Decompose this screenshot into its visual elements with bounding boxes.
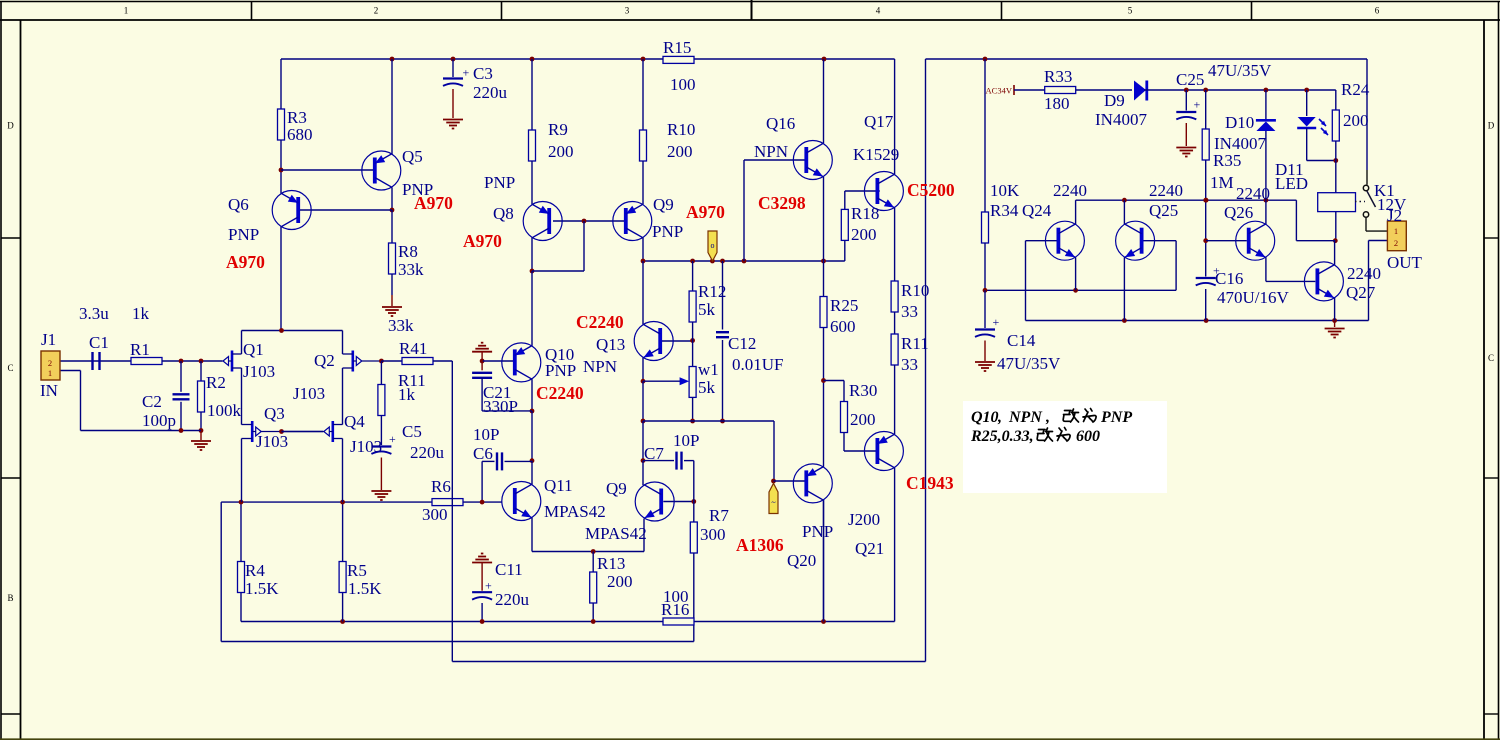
svg-text:J103: J103 [243, 362, 275, 381]
svg-text:J200: J200 [848, 510, 880, 529]
svg-text:+: + [1194, 98, 1201, 112]
svg-text:A1306: A1306 [736, 535, 784, 555]
svg-text:47U/35V: 47U/35V [1208, 61, 1272, 80]
svg-text:Q1: Q1 [243, 340, 264, 359]
svg-text:C7: C7 [644, 444, 664, 463]
svg-text:1k: 1k [398, 385, 416, 404]
svg-text:D: D [1488, 121, 1495, 131]
svg-text:R10: R10 [667, 120, 695, 139]
svg-text:Q5: Q5 [402, 147, 423, 166]
svg-text:LED: LED [1275, 174, 1308, 193]
svg-text:R4: R4 [245, 561, 265, 580]
svg-text:C3298: C3298 [758, 193, 806, 213]
svg-text:10P: 10P [673, 431, 699, 450]
svg-text:200: 200 [607, 572, 633, 591]
svg-text:220u: 220u [410, 443, 445, 462]
svg-text:NPN: NPN [754, 142, 788, 161]
svg-text:5k: 5k [698, 378, 716, 397]
svg-text:33: 33 [901, 302, 918, 321]
svg-text:Q9: Q9 [653, 195, 674, 214]
svg-text:C: C [7, 363, 13, 373]
svg-text:C6: C6 [473, 444, 493, 463]
svg-text:100: 100 [670, 75, 696, 94]
svg-text:+: + [993, 315, 1000, 329]
svg-text:+: + [463, 66, 470, 80]
svg-text:Q17: Q17 [864, 112, 894, 131]
svg-text:200: 200 [1343, 111, 1369, 130]
svg-text:,: , [997, 409, 1002, 426]
svg-text:600: 600 [1076, 428, 1100, 445]
svg-text:PNP: PNP [802, 522, 833, 541]
svg-text:Q10: Q10 [971, 409, 999, 426]
svg-text:R11: R11 [901, 334, 929, 353]
svg-text:+: + [485, 579, 492, 593]
svg-text:R15: R15 [663, 38, 691, 57]
svg-text:A970: A970 [226, 252, 265, 272]
svg-text:NPN: NPN [583, 357, 617, 376]
svg-text:R12: R12 [698, 282, 726, 301]
svg-text:R33: R33 [1044, 67, 1072, 86]
svg-text:R25: R25 [830, 296, 858, 315]
svg-text:A970: A970 [463, 231, 502, 251]
svg-text:0.01UF: 0.01UF [732, 355, 783, 374]
svg-text:C2240: C2240 [576, 312, 624, 332]
svg-text:R41: R41 [399, 339, 427, 358]
svg-text:600: 600 [830, 317, 856, 336]
svg-text:1M: 1M [1210, 173, 1234, 192]
svg-text:C3: C3 [473, 64, 493, 83]
svg-text:1k: 1k [132, 304, 150, 323]
svg-text:IN4007: IN4007 [1095, 110, 1147, 129]
svg-text:3.3u: 3.3u [79, 304, 109, 323]
svg-text:6: 6 [1375, 6, 1380, 16]
svg-text:2: 2 [48, 358, 52, 368]
svg-text:R9: R9 [548, 120, 568, 139]
svg-text:2: 2 [1394, 238, 1398, 248]
svg-text:R10: R10 [901, 281, 929, 300]
svg-text:AC34V: AC34V [986, 86, 1013, 96]
svg-text:~: ~ [771, 498, 776, 507]
svg-text:B: B [7, 593, 13, 603]
svg-text:470U/16V: 470U/16V [1217, 288, 1290, 307]
svg-text:PNP: PNP [652, 222, 683, 241]
svg-text:200: 200 [851, 225, 877, 244]
svg-text:1.5K: 1.5K [245, 579, 279, 598]
svg-text:C1: C1 [89, 333, 109, 352]
svg-text:NPN: NPN [1008, 409, 1043, 426]
svg-text:Q16: Q16 [766, 114, 795, 133]
svg-text:680: 680 [287, 125, 313, 144]
svg-text:300: 300 [700, 525, 726, 544]
svg-text:,: , [1045, 409, 1050, 426]
svg-text:1: 1 [1394, 226, 1398, 236]
svg-text:C1943: C1943 [906, 473, 954, 493]
svg-text:PNP: PNP [1100, 409, 1132, 426]
svg-text:220u: 220u [473, 83, 508, 102]
svg-text:4: 4 [876, 6, 881, 16]
svg-text:2240: 2240 [1053, 181, 1087, 200]
svg-text:PNP: PNP [228, 225, 259, 244]
svg-text:C14: C14 [1007, 331, 1036, 350]
svg-text:J1: J1 [41, 330, 56, 349]
svg-text:OUT: OUT [1387, 253, 1423, 272]
svg-text:33k: 33k [388, 316, 414, 335]
svg-text:C16: C16 [1215, 269, 1243, 288]
svg-text:PNP: PNP [484, 173, 515, 192]
svg-text:R35: R35 [1213, 151, 1241, 170]
svg-text:10P: 10P [473, 425, 499, 444]
svg-text:J103: J103 [293, 384, 325, 403]
svg-text:R34: R34 [990, 201, 1019, 220]
svg-text:R30: R30 [849, 381, 877, 400]
svg-text:C2240: C2240 [536, 383, 584, 403]
svg-text:R7: R7 [709, 506, 729, 525]
svg-text:w1: w1 [698, 360, 719, 379]
svg-text:Q6: Q6 [228, 195, 249, 214]
svg-text:MPAS42: MPAS42 [544, 502, 606, 521]
svg-text:Q13: Q13 [596, 335, 625, 354]
svg-text:R24: R24 [1341, 80, 1370, 99]
svg-text:IN: IN [40, 381, 58, 400]
svg-text:A970: A970 [414, 193, 453, 213]
svg-text:2: 2 [374, 6, 379, 16]
svg-text:300: 300 [422, 505, 448, 524]
svg-text:J2: J2 [1387, 206, 1402, 225]
svg-text:1: 1 [124, 6, 129, 16]
svg-text:33k: 33k [398, 260, 424, 279]
svg-text:330P: 330P [483, 397, 518, 416]
svg-text:220u: 220u [495, 590, 530, 609]
svg-text:R13: R13 [597, 554, 625, 573]
svg-text:Q24: Q24 [1022, 201, 1052, 220]
svg-text:K1529: K1529 [853, 145, 899, 164]
svg-text:A970: A970 [686, 202, 725, 222]
svg-text:33: 33 [901, 355, 918, 374]
svg-text:C12: C12 [728, 334, 756, 353]
svg-text:2240: 2240 [1236, 184, 1270, 203]
svg-text:1.5K: 1.5K [348, 579, 382, 598]
svg-text:5k: 5k [698, 300, 716, 319]
svg-text:R6: R6 [431, 477, 451, 496]
svg-text:Q11: Q11 [544, 476, 573, 495]
svg-text:+: + [389, 432, 396, 446]
svg-text:3: 3 [625, 6, 630, 16]
svg-text:J103: J103 [350, 437, 382, 456]
svg-text:Q9: Q9 [606, 479, 627, 498]
svg-text:2240: 2240 [1347, 264, 1381, 283]
svg-text:100p: 100p [142, 411, 176, 430]
svg-text:C5200: C5200 [907, 180, 955, 200]
svg-text:D9: D9 [1104, 91, 1125, 110]
svg-text:C25: C25 [1176, 70, 1204, 89]
svg-text:Q4: Q4 [344, 412, 365, 431]
svg-text:Q20: Q20 [787, 551, 816, 570]
svg-text:Q2: Q2 [314, 351, 335, 370]
svg-text:R8: R8 [398, 242, 418, 261]
svg-text:47U/35V: 47U/35V [997, 354, 1061, 373]
svg-text:C5: C5 [402, 422, 422, 441]
svg-text:Q8: Q8 [493, 204, 514, 223]
svg-text:R16: R16 [661, 600, 689, 619]
svg-text:C: C [1488, 353, 1494, 363]
svg-text:Q25: Q25 [1149, 201, 1178, 220]
svg-text:1: 1 [48, 368, 52, 378]
svg-text:MPAS42: MPAS42 [585, 524, 647, 543]
svg-text:2240: 2240 [1149, 181, 1183, 200]
svg-text:Q3: Q3 [264, 404, 285, 423]
svg-text:PNP: PNP [545, 361, 576, 380]
svg-text:R2: R2 [206, 373, 226, 392]
svg-text:200: 200 [548, 142, 574, 161]
svg-text:C2: C2 [142, 392, 162, 411]
svg-text:R18: R18 [851, 204, 879, 223]
svg-text:o: o [711, 241, 715, 250]
svg-text:R5: R5 [347, 561, 367, 580]
svg-text:200: 200 [850, 410, 876, 429]
svg-text:R1: R1 [130, 340, 150, 359]
svg-text:180: 180 [1044, 94, 1070, 113]
svg-text:J103: J103 [256, 432, 288, 451]
svg-text:C11: C11 [495, 560, 523, 579]
svg-text:Q21: Q21 [855, 539, 884, 558]
svg-text:Q27: Q27 [1346, 283, 1376, 302]
svg-text:D10: D10 [1225, 113, 1254, 132]
svg-text:D: D [7, 121, 14, 131]
svg-text:100k: 100k [207, 401, 242, 420]
svg-text:R25,0.33,: R25,0.33, [970, 428, 1034, 445]
svg-text:200: 200 [667, 142, 693, 161]
svg-text:Q26: Q26 [1224, 203, 1253, 222]
svg-text:10K: 10K [990, 181, 1020, 200]
svg-text:5: 5 [1128, 6, 1133, 16]
